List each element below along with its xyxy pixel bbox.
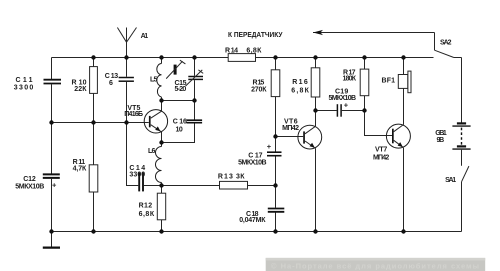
resistor R11 xyxy=(89,165,98,192)
svg-text:5МКХ10В: 5МКХ10В xyxy=(329,95,357,102)
svg-text:SA2: SA2 xyxy=(440,40,452,47)
capacitor C17 xyxy=(267,142,282,156)
svg-text:6,8К: 6,8К xyxy=(246,48,262,55)
svg-text:3300: 3300 xyxy=(129,172,145,179)
capacitor C11 xyxy=(44,80,62,84)
svg-text:10: 10 xyxy=(176,126,183,133)
svg-text:SA1: SA1 xyxy=(445,177,456,184)
resistor R12 xyxy=(157,193,165,220)
svg-text:VT7: VT7 xyxy=(375,147,387,154)
trimmer arrow symbol near L5 xyxy=(166,60,185,78)
svg-text:+: + xyxy=(52,180,57,189)
svg-text:3300: 3300 xyxy=(14,84,34,91)
svg-text:+: + xyxy=(267,142,272,151)
watermark bar xyxy=(266,258,486,271)
svg-text:К ПЕРЕДАТЧИКУ: К ПЕРЕДАТЧИКУ xyxy=(228,30,283,39)
svg-text:5МКХ10В: 5МКХ10В xyxy=(238,160,267,167)
svg-text:3К: 3К xyxy=(236,173,245,180)
svg-text:4,7К: 4,7К xyxy=(73,165,87,172)
capacitor C13 xyxy=(119,78,134,82)
svg-text:270К: 270К xyxy=(251,87,267,94)
wire battery drop xyxy=(461,58,463,123)
svg-text:A1: A1 xyxy=(141,33,149,40)
svg-text:6,8К: 6,8К xyxy=(291,87,309,94)
battery GB1 xyxy=(452,123,470,149)
resistor R16 xyxy=(311,68,320,97)
wire C19 right link xyxy=(342,110,365,112)
trimmer capacitor C15 xyxy=(186,70,204,86)
wire VT6 collector down xyxy=(315,148,317,231)
svg-text:С12: С12 xyxy=(23,176,36,183)
svg-text:С 16: С 16 xyxy=(173,118,187,125)
svg-text:22К: 22К xyxy=(74,86,87,93)
wire C13 node down to C14 xyxy=(127,123,139,186)
wire VT5 collector xyxy=(161,101,163,112)
svg-text:L5: L5 xyxy=(150,76,157,83)
wire bottom ground rail xyxy=(52,231,462,233)
svg-text:5-20: 5-20 xyxy=(175,86,187,93)
wire R16 branch xyxy=(315,58,317,111)
svg-text:180К: 180К xyxy=(343,75,357,82)
svg-text:С 13: С 13 xyxy=(105,73,118,80)
wire VT5 emitter xyxy=(161,132,163,143)
antenna A1 xyxy=(117,28,136,43)
svg-text:R 15: R 15 xyxy=(253,80,265,87)
wire C16 branch xyxy=(194,101,196,120)
svg-text:С 17: С 17 xyxy=(248,152,262,159)
inductor L6 xyxy=(156,147,162,183)
wire R17 branch xyxy=(364,58,366,111)
resistor R14 xyxy=(228,54,255,62)
wire L5 top stub xyxy=(161,58,163,64)
svg-text:МП42: МП42 xyxy=(282,125,299,132)
wire C18 branch xyxy=(275,186,277,208)
svg-text:5МКХ10В: 5МКХ10В xyxy=(15,184,44,191)
wire left vertical branch (C11/C12 column) xyxy=(51,58,53,80)
resistor R15 xyxy=(271,70,280,97)
svg-text:© На-Портале всё для радиолюби: © На-Портале всё для радиолюбителя схемы xyxy=(271,262,479,271)
earphone BF1 xyxy=(398,71,411,93)
transistor VT5 xyxy=(144,110,167,133)
svg-text:6: 6 xyxy=(109,80,113,87)
resistor R17 xyxy=(360,69,369,96)
wire L6 stubs xyxy=(161,143,163,147)
svg-text:R12: R12 xyxy=(139,202,153,209)
wire VT6 base line xyxy=(276,136,304,138)
wire BF1 top xyxy=(403,58,405,75)
wire R13 line xyxy=(162,185,276,187)
resistor R10 xyxy=(90,67,98,94)
wire top supply rail xyxy=(52,57,434,59)
wire R10 branch xyxy=(93,58,95,123)
wire VT5 base line xyxy=(52,122,149,124)
svg-text:GB1: GB1 xyxy=(435,130,447,137)
svg-text:П416Б: П416Б xyxy=(124,111,143,118)
wire battery to SA1 xyxy=(461,150,463,166)
wire C14 to L6 node xyxy=(144,185,162,187)
ground xyxy=(43,232,60,248)
svg-text:R13: R13 xyxy=(218,173,233,180)
svg-text:С11: С11 xyxy=(16,77,33,84)
capacitor C19 xyxy=(337,100,348,116)
wire antenna lead / C13 branch xyxy=(126,28,128,77)
svg-text:L6: L6 xyxy=(148,148,155,155)
wire VT7 collector up to BF1 xyxy=(403,88,405,124)
resistor R13 xyxy=(220,181,248,189)
transistor VT6 xyxy=(298,125,322,149)
wire tank bottom link xyxy=(162,100,195,102)
inductor L5 xyxy=(157,64,162,98)
transistor VT7 xyxy=(386,124,410,148)
wire C17 branch xyxy=(275,137,277,152)
svg-text:R16: R16 xyxy=(292,79,308,86)
capacitor C18 xyxy=(268,209,285,212)
wire R11 branch xyxy=(93,123,95,232)
wire SA1 to ground rail xyxy=(461,182,463,232)
switch SA1 xyxy=(462,166,469,182)
svg-text:6,8К: 6,8К xyxy=(139,211,155,218)
capacitor C16 xyxy=(186,120,202,123)
svg-text:9В: 9В xyxy=(437,137,445,144)
capacitor C12 xyxy=(43,174,60,189)
capacitor C14 xyxy=(139,173,143,192)
wire C15 branch xyxy=(194,58,196,76)
wire VT7 base line xyxy=(365,111,393,136)
wire R15 branch xyxy=(275,58,277,137)
wire C19 left link xyxy=(316,110,337,112)
svg-text:ВF1: ВF1 xyxy=(382,78,396,85)
wire VT6 emitter up xyxy=(315,111,317,127)
svg-text:R 14: R 14 xyxy=(225,48,238,55)
wire to transmitter line with arrow xyxy=(313,32,435,34)
wire VT7 emitter down xyxy=(403,148,405,232)
svg-text:МП42: МП42 xyxy=(373,154,389,161)
switch SA2 xyxy=(435,50,454,57)
wire L5 bottom stub xyxy=(161,97,163,100)
wire R12 branch xyxy=(161,186,163,232)
svg-text:0,047МК: 0,047МК xyxy=(239,217,266,224)
